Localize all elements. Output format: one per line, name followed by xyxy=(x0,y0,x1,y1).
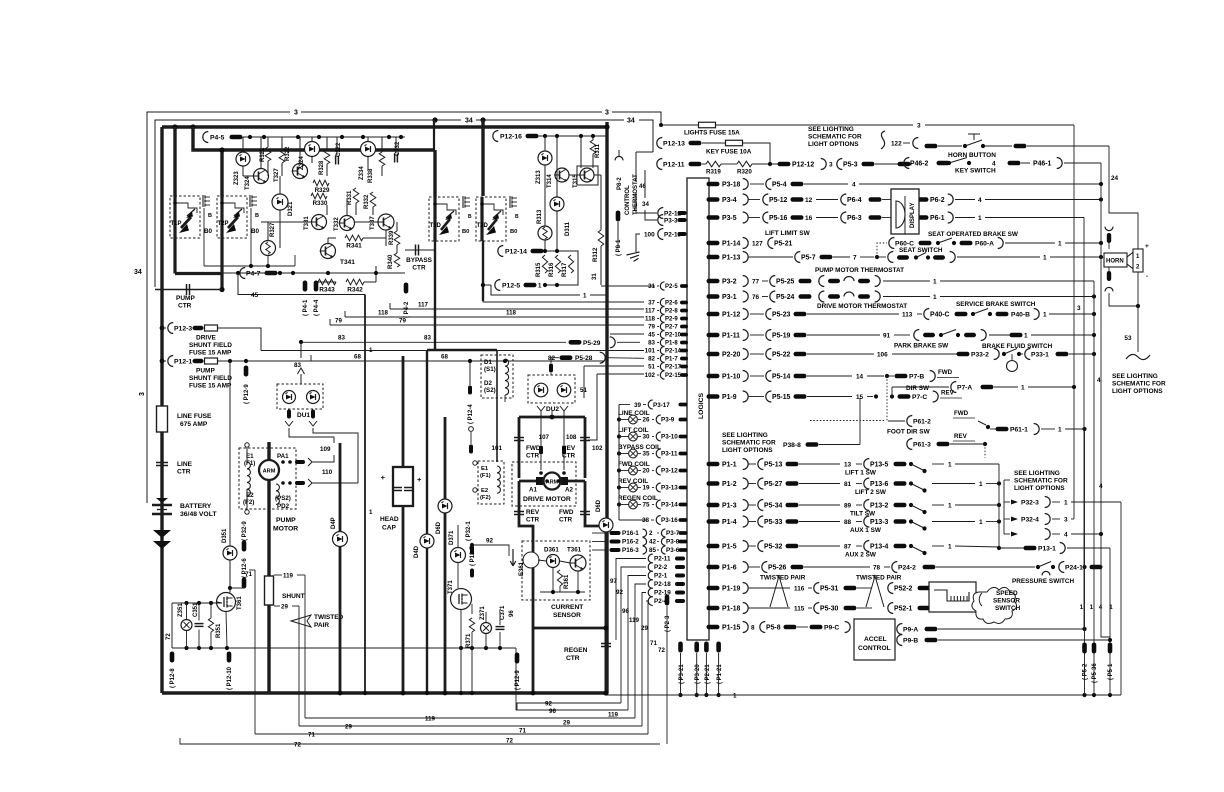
svg-text:34: 34 xyxy=(642,201,649,208)
svg-text:CTR: CTR xyxy=(526,453,540,460)
svg-text:3: 3 xyxy=(1064,516,1068,523)
svg-text:82: 82 xyxy=(648,356,655,363)
capacitor C371 xyxy=(496,626,505,628)
svg-text:R313: R313 xyxy=(537,209,543,224)
svg-text:102: 102 xyxy=(592,445,603,452)
svg-text:1: 1 xyxy=(538,283,542,290)
svg-text:TWISTED PAIR: TWISTED PAIR xyxy=(760,575,806,582)
capacitor REV CTR (top right) xyxy=(584,417,587,478)
svg-text:PUMP: PUMP xyxy=(176,295,195,302)
pump motor dashed box xyxy=(239,448,296,509)
p32 bracket xyxy=(1003,480,1005,534)
svg-text:34: 34 xyxy=(465,118,473,125)
svg-text:89: 89 xyxy=(844,502,852,509)
svg-text:P12-3: P12-3 xyxy=(174,326,192,333)
capacitor C351 xyxy=(195,623,204,625)
svg-text:P12-13: P12-13 xyxy=(663,141,685,148)
wire T371 to bus xyxy=(460,648,462,693)
svg-text:LIFT LIMIT SW: LIFT LIMIT SW xyxy=(765,230,811,237)
svg-text:P5-22: P5-22 xyxy=(772,351,791,358)
svg-text:26: 26 xyxy=(642,417,650,424)
svg-text:( P5-36: ( P5-36 xyxy=(1092,663,1098,683)
svg-text:79: 79 xyxy=(335,318,342,325)
svg-text:D2: D2 xyxy=(484,380,492,387)
svg-text:CTR: CTR xyxy=(562,453,576,460)
svg-text:7: 7 xyxy=(853,254,857,261)
svg-text:1: 1 xyxy=(1090,604,1094,611)
pump motor PS2 contact xyxy=(281,481,285,485)
svg-text:P2-1: P2-1 xyxy=(654,573,668,580)
svg-text:D361: D361 xyxy=(544,547,559,554)
svg-text:T341: T341 xyxy=(340,259,355,266)
wire rail y150 to right bank xyxy=(193,127,434,150)
wire bottom nested 119 xyxy=(305,717,635,719)
svg-text:P9-A: P9-A xyxy=(903,626,918,633)
svg-text:P5-30: P5-30 xyxy=(820,605,839,612)
svg-text:A1: A1 xyxy=(529,487,537,494)
svg-text:72: 72 xyxy=(658,647,665,654)
svg-text:REGEN: REGEN xyxy=(564,647,588,654)
svg-text:CTR: CTR xyxy=(566,655,580,662)
svg-text:( P4-2: ( P4-2 xyxy=(404,301,410,318)
svg-text:14: 14 xyxy=(856,373,864,380)
wire P12-5 left corner xyxy=(483,284,491,286)
svg-text:P60-A: P60-A xyxy=(975,240,994,247)
svg-text:P3-6: P3-6 xyxy=(666,547,680,554)
diode D371 xyxy=(451,548,466,563)
wire 119 from shunt xyxy=(274,574,282,576)
wire S-coil feeds xyxy=(504,359,506,361)
svg-text:FOOT DIR SW: FOOT DIR SW xyxy=(887,429,931,436)
diode D311 xyxy=(550,197,564,211)
svg-text:R316: R316 xyxy=(549,262,555,277)
row P32-3 xyxy=(1011,500,1018,505)
fuse LINE FUSE 675 AMP xyxy=(157,406,168,432)
key switch xyxy=(904,158,910,169)
wire bundle verticals bottom right of LOGICS xyxy=(616,559,646,641)
wire 31 drop xyxy=(600,175,602,230)
svg-text:R327: R327 xyxy=(270,222,276,237)
svg-text:3: 3 xyxy=(139,392,146,396)
transistor T1D (power module, dashed box) xyxy=(429,197,459,241)
drive motor ARM xyxy=(519,480,538,483)
wire bypass ctr rail xyxy=(405,249,434,251)
svg-text:D1: D1 xyxy=(484,359,492,366)
capacitor PUMP CTR xyxy=(155,289,222,291)
svg-text:SPEED: SPEED xyxy=(996,590,1018,597)
svg-text:37: 37 xyxy=(648,300,655,307)
svg-text:P1-15: P1-15 xyxy=(722,624,741,631)
svg-text:100: 100 xyxy=(644,232,655,239)
svg-text:LINE: LINE xyxy=(177,461,193,468)
svg-text:P1-2: P1-2 xyxy=(722,481,737,488)
capacitor C332 xyxy=(394,154,396,163)
svg-text:R319: R319 xyxy=(706,169,721,176)
svg-text:2: 2 xyxy=(649,530,653,537)
svg-text:REV: REV xyxy=(526,509,540,516)
svg-text:P13-4: P13-4 xyxy=(870,543,889,550)
svg-text:P3-1: P3-1 xyxy=(722,294,737,301)
svg-text:P13-3: P13-3 xyxy=(870,519,889,526)
svg-text:( P5-2: ( P5-2 xyxy=(1083,663,1089,680)
svg-text:4: 4 xyxy=(852,181,856,188)
svg-text:R328: R328 xyxy=(319,160,325,175)
svg-text:4: 4 xyxy=(1099,483,1103,490)
svg-text:(F2): (F2) xyxy=(480,495,491,501)
svg-text:P3-13: P3-13 xyxy=(661,485,678,492)
svg-text:P40-C: P40-C xyxy=(930,311,950,318)
wire driver interconnects xyxy=(279,176,281,194)
svg-text:P5-25: P5-25 xyxy=(776,278,795,285)
svg-text:127: 127 xyxy=(752,240,763,247)
svg-text:T314: T314 xyxy=(547,174,553,188)
resistor R343 xyxy=(318,279,336,285)
wire rail 118 xyxy=(345,316,644,318)
transistor T2P (power module, dashed box) xyxy=(217,196,247,238)
connector P2-3 xyxy=(665,595,670,606)
row P13-1 xyxy=(999,547,1024,549)
svg-text:P8-2: P8-2 xyxy=(617,177,623,190)
svg-text:TWISTED PAIR: TWISTED PAIR xyxy=(856,575,902,582)
svg-text:(F1): (F1) xyxy=(480,473,491,479)
svg-text:1: 1 xyxy=(733,693,737,700)
svg-text:CTR: CTR xyxy=(526,517,540,524)
svg-text:P2-18: P2-18 xyxy=(654,581,671,588)
capacitor FWD CTR (top left) xyxy=(518,417,521,478)
wire bottom nested 92 xyxy=(517,703,621,710)
svg-text:CTR: CTR xyxy=(559,517,573,524)
svg-text:P12-12: P12-12 xyxy=(792,161,814,168)
wire rail 68 xyxy=(311,360,604,362)
svg-text:R342: R342 xyxy=(347,287,363,294)
connector P12-16 xyxy=(493,131,499,142)
svg-text:51: 51 xyxy=(580,387,587,394)
svg-text:106: 106 xyxy=(877,351,888,358)
svg-text:DIR SW: DIR SW xyxy=(906,385,930,392)
wire emitter T1P down xyxy=(173,238,176,274)
resistor R332 xyxy=(370,192,376,207)
svg-text:1: 1 xyxy=(1043,311,1047,318)
svg-text:( P32-1: ( P32-1 xyxy=(466,521,472,541)
svg-text:1: 1 xyxy=(948,543,952,550)
svg-text:BRAKE FLUID SWITCH: BRAKE FLUID SWITCH xyxy=(982,343,1053,350)
svg-text:CONTROL: CONTROL xyxy=(858,645,891,652)
svg-text:P2-7: P2-7 xyxy=(665,325,678,331)
svg-text:CTR: CTR xyxy=(178,303,192,310)
svg-text:110: 110 xyxy=(322,469,333,476)
svg-text:1: 1 xyxy=(1043,254,1047,261)
svg-text:T371: T371 xyxy=(448,580,454,594)
svg-text:LIGHT OPTIONS: LIGHT OPTIONS xyxy=(1014,485,1065,492)
svg-text:39: 39 xyxy=(634,402,642,409)
svg-text:53: 53 xyxy=(1124,335,1132,342)
svg-text:83: 83 xyxy=(294,362,302,369)
transistor T324 xyxy=(254,169,269,184)
thermistor R313 xyxy=(538,226,552,240)
wire long vertical x340 D4P xyxy=(339,443,342,693)
row P7-A xyxy=(951,382,957,393)
thyristor Z324 xyxy=(305,142,320,157)
svg-text:P13-5: P13-5 xyxy=(870,461,889,468)
svg-text:CURRENT: CURRENT xyxy=(551,604,583,611)
svg-text:( P12-4: ( P12-4 xyxy=(468,404,474,424)
rectifier DU2 (dashed box) xyxy=(528,375,575,403)
svg-text:P1-18: P1-18 xyxy=(722,605,741,612)
svg-text:83: 83 xyxy=(338,335,345,342)
row P3-5 / P5-16 / P6-3 xyxy=(707,215,720,220)
row P1-12 service brake switch xyxy=(707,312,720,317)
svg-text:1: 1 xyxy=(933,278,937,285)
svg-text:SCHEMATIC FOR: SCHEMATIC FOR xyxy=(722,440,776,447)
svg-text:20: 20 xyxy=(642,468,650,475)
svg-text:P5-34: P5-34 xyxy=(764,502,783,509)
svg-text:79: 79 xyxy=(648,324,655,331)
svg-text:P6-2: P6-2 xyxy=(930,197,945,204)
svg-text:78: 78 xyxy=(873,564,881,571)
wire bottom nested 29 xyxy=(299,725,642,727)
row P32-4 xyxy=(1011,517,1018,522)
svg-text:Z334: Z334 xyxy=(359,166,365,180)
wire sw collector vertical xyxy=(998,464,1000,548)
svg-text:72: 72 xyxy=(166,633,172,640)
svg-text:34: 34 xyxy=(134,269,142,276)
row P1-3 TILT SW xyxy=(707,503,720,508)
svg-text:P13-1: P13-1 xyxy=(1038,545,1056,552)
svg-text:B: B xyxy=(255,213,259,219)
wire long vertical x445 D6D xyxy=(444,417,447,693)
svg-text:AUX 2 SW: AUX 2 SW xyxy=(845,552,877,559)
transistor T1P (power module, dashed box) xyxy=(170,196,200,238)
svg-text:( P12-7: ( P12-7 xyxy=(470,546,476,566)
svg-text:P52-2: P52-2 xyxy=(894,585,913,592)
svg-text:PARK BRAKE SW: PARK BRAKE SW xyxy=(894,343,949,350)
svg-text:97: 97 xyxy=(610,578,617,585)
svg-text:R340: R340 xyxy=(388,254,394,269)
resistor R371 xyxy=(469,618,474,632)
svg-text:( P4-1: ( P4-1 xyxy=(303,299,309,316)
svg-text:P2-5: P2-5 xyxy=(665,284,678,290)
connector P12-14 xyxy=(498,246,503,257)
svg-text:P5-21: P5-21 xyxy=(774,240,793,247)
wire rail 45b xyxy=(610,333,644,335)
svg-text:P5-8: P5-8 xyxy=(766,624,781,631)
svg-text:P52-1: P52-1 xyxy=(894,605,913,612)
svg-text:KEY SWITCH: KEY SWITCH xyxy=(955,168,996,175)
capacitor HEAD CAP xyxy=(393,467,413,506)
wire long vertical x403 headcap xyxy=(402,356,405,467)
svg-text:P3-5: P3-5 xyxy=(722,215,737,222)
row P61-2 fwd xyxy=(907,416,913,427)
svg-text:92: 92 xyxy=(486,538,494,545)
svg-text:SHUNT: SHUNT xyxy=(282,593,305,600)
svg-text:R329: R329 xyxy=(315,187,330,194)
resistor R329 xyxy=(313,180,329,186)
svg-text:P5-7: P5-7 xyxy=(801,254,816,261)
row P2-20 brake fluid switch xyxy=(707,352,720,357)
svg-text:P3-7: P3-7 xyxy=(666,530,680,537)
wire bottom line 1 xyxy=(605,694,1121,696)
svg-text:FUSE 15 AMP: FUSE 15 AMP xyxy=(189,350,232,357)
svg-text:P9-B: P9-B xyxy=(903,637,918,644)
wire thick bus right vertical x607 xyxy=(605,122,608,693)
svg-text:E1: E1 xyxy=(481,466,489,472)
resistor R322 xyxy=(279,149,285,163)
svg-text:P5-14: P5-14 xyxy=(772,373,791,380)
resistor R338 xyxy=(379,152,385,166)
svg-text:P4-7: P4-7 xyxy=(246,271,261,278)
svg-text:31: 31 xyxy=(648,283,655,290)
resistor R342 xyxy=(346,279,364,285)
svg-text:D4D: D4D xyxy=(414,545,420,558)
svg-text:8: 8 xyxy=(751,624,755,631)
svg-text:P2-9: P2-9 xyxy=(665,317,678,323)
diode D6D xyxy=(438,499,452,513)
svg-text:SWITCH: SWITCH xyxy=(995,605,1021,612)
row P1-13 / P5-7 seat switch xyxy=(707,255,720,260)
svg-text:115: 115 xyxy=(794,605,805,612)
current arrow xyxy=(510,549,516,566)
connector P4-7 xyxy=(240,268,245,279)
wire rail 45 xyxy=(238,273,365,295)
svg-text:P1-14: P1-14 xyxy=(722,240,741,247)
svg-text:675 AMP: 675 AMP xyxy=(180,421,208,428)
svg-text:118: 118 xyxy=(378,310,389,317)
connector P12-3 + DRIVE SHUNT FIELD FUSE xyxy=(160,326,165,331)
svg-text:T332: T332 xyxy=(334,217,340,231)
svg-text:119: 119 xyxy=(283,573,294,580)
svg-text:P6-1: P6-1 xyxy=(930,215,945,222)
svg-text:P61-1: P61-1 xyxy=(1010,426,1028,433)
svg-text:P1-13: P1-13 xyxy=(722,254,741,261)
svg-text:P1-11: P1-11 xyxy=(722,332,740,339)
wire long vertical x362 xyxy=(364,295,366,694)
svg-text:42: 42 xyxy=(649,539,657,546)
row P3-4 / P5-12 / P6-4 xyxy=(707,197,720,202)
svg-text:PUMP: PUMP xyxy=(196,368,215,375)
resistor R330 xyxy=(311,193,327,199)
svg-text:P5-12: P5-12 xyxy=(769,197,788,204)
svg-text:P32-4: P32-4 xyxy=(1021,516,1039,523)
svg-text:71: 71 xyxy=(519,728,526,735)
wire DU2 out hooks xyxy=(537,406,545,411)
svg-text:+: + xyxy=(1145,243,1149,250)
svg-text:P4-5: P4-5 xyxy=(210,135,225,142)
svg-text:113: 113 xyxy=(902,311,913,318)
wire rail 51 xyxy=(584,365,644,367)
diode D351 xyxy=(223,546,237,560)
zener Z351 xyxy=(181,620,192,631)
svg-text:BYPASS: BYPASS xyxy=(406,257,433,264)
svg-text:P5-4: P5-4 xyxy=(772,181,787,188)
svg-text:P3-3: P3-3 xyxy=(664,218,678,225)
svg-text:1: 1 xyxy=(978,215,982,222)
svg-text:1: 1 xyxy=(1058,240,1062,247)
svg-text:SERVICE BRAKE SWITCH: SERVICE BRAKE SWITCH xyxy=(956,301,1036,308)
thermistor R327 xyxy=(261,241,276,256)
wire feed T2D xyxy=(481,120,484,196)
svg-text:92: 92 xyxy=(545,701,552,708)
svg-text:P2-20: P2-20 xyxy=(722,351,741,358)
svg-text:P16-1: P16-1 xyxy=(622,530,639,537)
svg-text:HEAD: HEAD xyxy=(380,516,399,523)
svg-text:( P3-20: ( P3-20 xyxy=(695,664,701,684)
wire right verticals xyxy=(1073,125,1075,519)
svg-text:P33-1: P33-1 xyxy=(1031,351,1049,358)
svg-text:122: 122 xyxy=(891,141,902,148)
drive field coil box xyxy=(478,461,504,504)
row P1-9 dir sw rev xyxy=(707,394,720,399)
svg-text:P1-10: P1-10 xyxy=(722,373,741,380)
svg-text:3: 3 xyxy=(1077,305,1081,312)
wire 29 from shunt xyxy=(274,605,280,607)
connector P3-3 xyxy=(658,215,664,226)
svg-text:31: 31 xyxy=(592,273,598,280)
resistor R339 xyxy=(394,231,400,245)
svg-text:1: 1 xyxy=(369,347,373,354)
wire main negative bus (thick frame) xyxy=(162,125,607,128)
zener Z371 xyxy=(481,623,492,634)
speed sensor switch xyxy=(929,582,976,612)
svg-text:Z351: Z351 xyxy=(178,603,184,617)
wire coil common xyxy=(618,405,620,521)
wire rail 82 xyxy=(607,357,644,360)
svg-text:R343: R343 xyxy=(319,287,335,294)
svg-text:PA1: PA1 xyxy=(277,453,289,460)
svg-text:P1-4: P1-4 xyxy=(722,519,737,526)
transistor T332 xyxy=(340,216,355,231)
row P1-19 xyxy=(707,586,720,591)
svg-text:P6-4: P6-4 xyxy=(847,197,862,204)
svg-text:R332: R332 xyxy=(364,194,370,209)
svg-text:P3-10: P3-10 xyxy=(661,434,678,441)
svg-text:P5-15: P5-15 xyxy=(772,394,791,401)
svg-text:3: 3 xyxy=(829,161,833,168)
svg-text:1: 1 xyxy=(948,502,952,509)
svg-text:P5-32: P5-32 xyxy=(764,543,783,550)
svg-text:119: 119 xyxy=(425,716,436,723)
row P1-18 xyxy=(707,606,720,611)
svg-text:79: 79 xyxy=(399,318,406,325)
resistor R331 xyxy=(353,188,359,203)
diode D4P xyxy=(333,532,348,547)
wire feed T2P xyxy=(220,150,223,196)
row P3-1 drive motor thermostat xyxy=(707,294,720,299)
svg-text:4: 4 xyxy=(1064,531,1068,538)
svg-text:108: 108 xyxy=(566,434,577,441)
svg-text:C371: C371 xyxy=(500,605,506,620)
drive bottom thick loop xyxy=(519,521,533,628)
svg-text:SENSOR: SENSOR xyxy=(553,612,581,619)
svg-text:SEE LIGHTING: SEE LIGHTING xyxy=(722,432,768,439)
svg-text:P1-12: P1-12 xyxy=(722,311,741,318)
svg-text:35: 35 xyxy=(642,451,650,458)
svg-text:LINE FUSE: LINE FUSE xyxy=(177,413,212,420)
svg-text:P12-14: P12-14 xyxy=(505,249,527,256)
svg-text:FWD: FWD xyxy=(954,410,969,417)
wire rail 102 xyxy=(597,373,644,375)
svg-text:ARM: ARM xyxy=(263,469,276,475)
fuse LIGHTS FUSE 15A xyxy=(661,124,698,126)
svg-text:1: 1 xyxy=(979,519,983,526)
svg-text:P5-31: P5-31 xyxy=(820,585,839,592)
svg-text:T1P: T1P xyxy=(171,221,182,227)
svg-text:+: + xyxy=(417,475,422,484)
wire rail 83 xyxy=(301,341,566,343)
svg-text:( P4-4: ( P4-4 xyxy=(314,299,320,316)
svg-text:DU2: DU2 xyxy=(546,406,559,413)
row P3-18 / P5-4 xyxy=(707,182,720,187)
svg-text:P33-2: P33-2 xyxy=(971,351,989,358)
